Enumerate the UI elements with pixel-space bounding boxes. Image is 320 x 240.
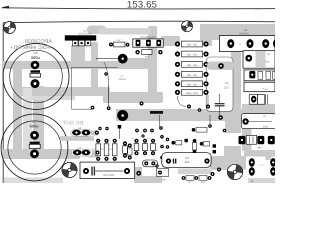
svg-text:T3A: T3A	[265, 61, 270, 64]
svg-text:560u: 560u	[31, 55, 40, 60]
svg-text:MJE15030: MJE15030	[79, 33, 92, 36]
jumper J3	[72, 147, 93, 156]
heatsink outline thin lines	[72, 62, 118, 109]
wire from big pad to G3	[122, 58, 150, 67]
fuse F1 box	[243, 51, 275, 68]
node pads right of jumpers	[95, 131, 99, 135]
wire G11 below IC1	[71, 45, 85, 62]
jumper J5 oval bottom	[143, 160, 158, 167]
svg-text:JP1: JP1	[257, 146, 262, 149]
diode D below IC2	[135, 50, 162, 59]
svg-text:J1: J1	[250, 179, 253, 183]
bridge rectifier B1	[219, 29, 280, 52]
copper traces (gray)	[3, 24, 275, 183]
wire G13 vertical bar far right	[242, 104, 252, 151]
wire G8b faint second bar	[23, 88, 32, 150]
svg-text:~: ~	[257, 42, 259, 46]
wire G17 under globe2	[201, 31, 212, 46]
wire G14 patch right edge	[262, 104, 275, 122]
resistor column R14-R19	[175, 41, 209, 95]
mounting hole globe bottom-left	[62, 162, 77, 177]
comps between cluster and C4	[172, 139, 217, 154]
small box with pad bottom middle	[157, 168, 169, 181]
mirrored silk text APCC6039	[10, 39, 52, 51]
svg-text:C8: C8	[225, 81, 229, 85]
wire drop to pad x210	[192, 115, 227, 132]
svg-text:R12: R12	[145, 56, 150, 59]
svg-text:DC OUT: DC OUT	[62, 121, 83, 127]
svg-text:2u2: 2u2	[224, 86, 229, 90]
resistor R11 box bottom-left	[80, 162, 135, 178]
svg-text:4R1 · 5W: 4R1 · 5W	[187, 64, 198, 67]
resistor R7	[109, 39, 130, 47]
wire patch below C4	[178, 169, 212, 175]
transistor IC2 MJE15031	[133, 36, 163, 47]
svg-text:0R1 · 5W: 0R1 · 5W	[187, 44, 198, 47]
cluster vertical comps right	[134, 139, 155, 156]
wire light band below G5	[30, 96, 75, 100]
node pad on stub	[218, 63, 224, 69]
wire G4a top right band	[200, 24, 275, 40]
svg-text:C10: C10	[259, 164, 264, 167]
wire G1 horizontal band through C3	[3, 61, 150, 69]
node pad left of segment	[140, 102, 144, 106]
mounting hole globe bottom-right	[227, 164, 242, 179]
mounting hole globe top-right	[182, 21, 193, 32]
connector row below L2	[249, 95, 267, 105]
big pad node A	[96, 54, 128, 64]
dimension line 153.65	[2, 0, 276, 11]
wire G5 band mid-left	[13, 87, 110, 96]
capacitor C4	[162, 153, 211, 168]
wire drops below resistor column	[178, 95, 209, 107]
wire G2 vertical from IC1	[91, 42, 98, 90]
svg-text:153.65: 153.65	[127, 0, 157, 11]
wire G9 vertical bar through capacitors	[33, 86, 44, 152]
wire G4b patch behind resistor row1	[161, 36, 180, 46]
relay connector K1	[244, 70, 275, 81]
cluster pads row	[135, 129, 154, 133]
capacitor C8 body outline	[206, 57, 233, 111]
node pads center	[91, 72, 111, 110]
svg-text:FDiC 44HR 581+: FDiC 44HR 581+	[10, 45, 50, 51]
wire G4c blob over IC1	[87, 26, 106, 35]
pads column x162	[159, 115, 164, 159]
node pads right of C4	[211, 172, 215, 176]
wire patch above JP1	[225, 102, 241, 133]
svg-text:4u7: 4u7	[185, 160, 190, 164]
transistor IC1 MJE15030	[65, 30, 96, 46]
svg-text:+ L2: + L2	[262, 88, 268, 91]
svg-text:TR: TR	[266, 53, 269, 56]
wire G16b right of J3 pads	[88, 151, 98, 158]
node pads extra cluster	[128, 134, 170, 167]
svg-text:220k: 220k	[263, 125, 269, 128]
wire G15b right of C4	[210, 156, 246, 170]
wire G8 vertical left bar	[13, 62, 22, 150]
wire black segment	[150, 111, 163, 114]
svg-text:08/2506: 08/2506	[239, 33, 249, 36]
big pad node B	[109, 85, 129, 121]
wire G7 wide band right	[116, 109, 275, 121]
resistor C9 bottom right	[242, 114, 276, 129]
svg-text:6R1 · 5W: 6R1 · 5W	[187, 83, 198, 86]
inductor L2 box	[244, 82, 275, 93]
mounting hole globe top-left	[4, 22, 16, 34]
svg-text:4R43 · R10: 4R43 · R10	[186, 92, 198, 95]
wire stub to pad	[207, 62, 234, 70]
wire bottom middle patch	[134, 167, 142, 183]
wire G3 vertical bar center	[148, 26, 157, 96]
wire G15 bottom strip	[248, 178, 275, 183]
diodes below C4	[182, 176, 212, 181]
connector J1 bottom right corner	[244, 150, 276, 183]
jumper J4	[60, 127, 94, 141]
node pad below C8 area	[198, 108, 202, 112]
resistor P1 bottom right	[239, 136, 275, 155]
board outline	[3, 21, 275, 183]
square pad with wire top of cluster	[118, 125, 122, 139]
svg-text:100uH: 100uH	[118, 78, 126, 81]
node pad below R11 box	[136, 171, 141, 176]
node pads above cluster	[98, 127, 101, 130]
tiny ref labels in cluster	[93, 137, 160, 152]
svg-text:2R1 · 5W: 2R1 · 5W	[187, 54, 198, 57]
svg-text:R11 0R22: R11 0R22	[103, 174, 115, 177]
wire G12 vertical bar right	[231, 42, 241, 120]
svg-text:+: +	[239, 42, 241, 46]
svg-text:uH: uH	[271, 91, 274, 94]
capacitor C3 (large electrolytic)	[3, 44, 69, 110]
svg-text:IC2 MJE15031: IC2 MJE15031	[140, 36, 156, 39]
inductor L1 label	[118, 75, 126, 81]
capacitor C8 symbol	[215, 81, 230, 120]
svg-text:R19: R19	[201, 181, 206, 183]
small vertical resistors cluster	[96, 139, 127, 161]
svg-text:0R1 · 5W: 0R1 · 5W	[187, 74, 198, 77]
wire G10 bottom left band	[3, 149, 80, 159]
svg-text:B1: B1	[244, 29, 248, 32]
wire G6 band center	[103, 92, 163, 103]
wire bottom-left light strip	[4, 178, 63, 184]
svg-text:560u: 560u	[30, 123, 39, 128]
capacitor C2 (large electrolytic)	[1, 114, 68, 181]
